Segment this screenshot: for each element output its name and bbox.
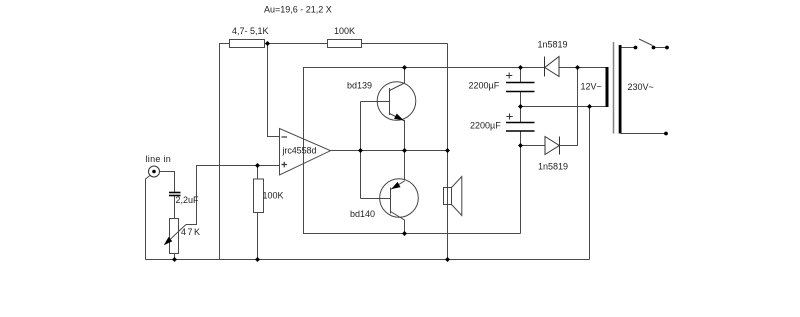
node 100K bias to ground xyxy=(255,257,260,262)
node output to speaker/feedback xyxy=(445,148,450,153)
mains terminal top xyxy=(665,46,669,50)
wire bd139 base lead xyxy=(361,101,390,103)
wire bottom diode cathode up to secondary top xyxy=(560,68,578,146)
speaker LS1 xyxy=(444,177,462,216)
svg-text:12V~: 12V~ xyxy=(581,82,602,92)
potentiometer 47K arrowhead xyxy=(164,237,173,245)
wire top cap to bottom cap through mid node xyxy=(520,92,522,122)
wire V+ node to top cap xyxy=(520,68,522,83)
node A R1/R2 junction xyxy=(265,41,270,46)
node secondary bottom xyxy=(587,104,592,109)
node bd139 collector to V+ xyxy=(402,65,407,70)
potentiometer 47K body xyxy=(170,219,179,254)
bd139 emitter arrowhead xyxy=(394,114,403,121)
wire bottom cap to V- node xyxy=(520,132,522,146)
C3 plus sign xyxy=(507,114,513,120)
svg-text:4,7- 5,1K: 4,7- 5,1K xyxy=(232,26,269,36)
wire secondary top xyxy=(578,67,606,69)
bd140 emitter arrowhead xyxy=(391,182,400,189)
transistor Q1 bd139 xyxy=(377,82,416,121)
wire primary top segment xyxy=(621,47,636,49)
wire op-amp output line xyxy=(331,150,448,152)
potentiometer 47K wiper xyxy=(167,225,187,243)
svg-text:2200µF: 2200µF xyxy=(470,121,501,131)
transistor Q2 bd140 xyxy=(380,179,419,220)
wire mid rail to transformer secondary bottom xyxy=(521,106,606,108)
wire base drive vertical xyxy=(360,102,362,199)
wire V- node down to rail corner xyxy=(520,146,522,234)
wire 100K bias top lead xyxy=(257,166,259,180)
wire inverting input xyxy=(268,44,280,137)
diode D1 1n5819 top xyxy=(545,57,560,77)
svg-text:line in: line in xyxy=(146,154,171,164)
wire feedback/speaker vertical xyxy=(447,44,449,260)
transformer T1 secondary winding bar xyxy=(606,67,609,107)
node speaker to ground xyxy=(445,257,450,262)
svg-text:bd139: bd139 xyxy=(347,81,372,91)
node non-inverting input to 100K xyxy=(255,163,260,168)
op-amp minus sign xyxy=(282,136,288,138)
node bd140 collector to V- xyxy=(402,231,407,236)
capacitor C1 2,2uF plates xyxy=(169,193,181,196)
wire supply box V+ top, left side, V- bottom xyxy=(304,68,521,234)
wire bd139 collector lead xyxy=(404,68,406,84)
wire bd140 base lead xyxy=(361,198,391,200)
wire V- node to bottom diode xyxy=(521,145,546,147)
switch S1 lever xyxy=(639,39,653,46)
wire emitters junction vertical xyxy=(404,120,406,181)
op-amp U1 jrc4558d xyxy=(280,129,331,176)
capacitor C3 2200uF bottom plates xyxy=(506,123,535,132)
resistor R3 100K bias xyxy=(254,179,264,213)
node V+ cap/diode xyxy=(518,65,523,70)
wire ground bottom line xyxy=(146,259,590,261)
wire pot to ground line xyxy=(174,254,176,260)
svg-text:Au=19,6 - 21,2 X: Au=19,6 - 21,2 X xyxy=(264,4,332,14)
connector line in xyxy=(149,166,160,177)
resistor R2 100K feedback xyxy=(328,40,362,48)
svg-text:jrc4558d: jrc4558d xyxy=(282,146,317,156)
diode D2 1n5819 bottom xyxy=(545,137,560,155)
wire non-inverting input xyxy=(186,166,280,225)
capacitor C2 2200uF top plates xyxy=(506,83,535,92)
node emitters to output xyxy=(402,148,407,153)
wire switch to terminal xyxy=(654,47,668,49)
node secondary top xyxy=(575,65,580,70)
wire cap to pot xyxy=(174,195,176,219)
wire 100K right lead xyxy=(362,43,448,45)
connector center pin xyxy=(152,170,156,174)
wire between R1 and R2 xyxy=(265,43,328,45)
node output to bases xyxy=(358,148,363,153)
svg-text:100K: 100K xyxy=(334,26,355,36)
svg-text:bd140: bd140 xyxy=(350,209,375,219)
switch S1 contact dots xyxy=(634,46,638,50)
wire line-in to cap xyxy=(160,172,175,193)
wire connector ground drop xyxy=(146,175,151,260)
node pot to ground xyxy=(172,257,177,262)
wire 100K bias bottom lead xyxy=(257,213,259,260)
C2 plus sign xyxy=(506,73,512,79)
svg-text:2200µF: 2200µF xyxy=(469,81,500,91)
wire primary bottom xyxy=(621,133,666,135)
wire secondary bottom to ground line xyxy=(589,107,591,260)
wire V+ node to top diode xyxy=(521,67,545,69)
transformer core xyxy=(613,42,615,134)
svg-text:100K: 100K xyxy=(263,191,284,201)
node mid rail left xyxy=(518,104,523,109)
transformer T1 primary winding bar xyxy=(619,45,622,134)
svg-text:47K: 47K xyxy=(181,227,200,237)
mains terminal bottom xyxy=(664,132,668,136)
svg-text:230V~: 230V~ xyxy=(628,82,654,92)
svg-text:1n5819: 1n5819 xyxy=(538,162,568,172)
resistor R1 4,7-5,1K xyxy=(230,40,265,48)
wire bd140 collector lead xyxy=(404,220,406,234)
svg-text:2,2uF: 2,2uF xyxy=(176,195,200,205)
op-amp plus sign xyxy=(282,162,288,168)
node V- cap/diode xyxy=(518,143,523,148)
wire top diode to secondary top node xyxy=(559,67,578,69)
svg-text:1n5819: 1n5819 xyxy=(538,40,568,50)
wire 4.7K left lead xyxy=(220,44,230,260)
